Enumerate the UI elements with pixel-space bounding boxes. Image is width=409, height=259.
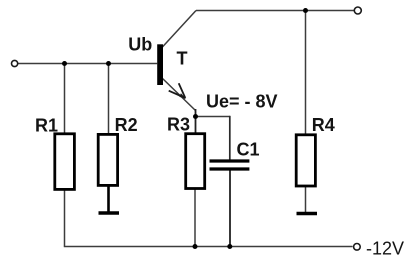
resistor R1: [55, 134, 75, 190]
svg-text:C1: C1: [237, 139, 260, 159]
wire R1 top lead: [64, 64, 66, 135]
wire R2 ground stub: [107, 185, 110, 212]
wire R4 ground stub: [305, 186, 307, 213]
wire node to capacitor C1 top: [196, 116, 230, 118]
wire top rail: [196, 10, 354, 12]
node junction dot bottom rail/R3: [193, 244, 198, 249]
resistor R2: [98, 134, 117, 185]
wire R3 bottom lead: [194, 188, 196, 246]
wire R2 top lead: [108, 64, 110, 135]
node junction dot base/R1: [62, 61, 67, 66]
node junction dot emitter/R3/C1: [193, 114, 198, 119]
node junction dot base/R2: [106, 61, 111, 66]
wire base wire from left terminal to transistor base: [18, 63, 157, 65]
wire R4 top lead: [305, 11, 307, 136]
terminal -12V bottom right: [354, 244, 361, 251]
svg-text:R1: R1: [35, 116, 58, 136]
svg-text:R2: R2: [115, 115, 138, 135]
svg-text:T: T: [177, 48, 188, 68]
wire bottom rail to -12V terminal: [64, 246, 353, 248]
transistor Q1 emitter arrowhead: [169, 83, 186, 98]
svg-text:R3: R3: [167, 115, 190, 135]
wire C1 bottom lead: [229, 170, 231, 246]
resistor R4: [296, 135, 315, 186]
wire emitter node to R3 top: [195, 109, 197, 134]
terminal output top right: [354, 7, 361, 14]
svg-text:R4: R4: [312, 115, 335, 135]
resistor R3: [186, 134, 205, 189]
transistor Q1 base bar: [157, 44, 163, 85]
node junction dot bottom rail/C1: [227, 244, 232, 249]
capacitor C1 bottom plate: [210, 167, 250, 170]
ground under R4: [297, 212, 318, 216]
terminal input left: [12, 60, 18, 66]
svg-text:Ub: Ub: [128, 35, 152, 55]
ground under R2: [99, 211, 120, 215]
node junction dot top rail/R4: [303, 8, 308, 13]
wire collector diagonal: [162, 11, 197, 49]
wire emitter diagonal: [162, 78, 196, 111]
wire R1 bottom lead: [64, 189, 66, 246]
svg-text:-12V: -12V: [366, 239, 404, 259]
capacitor C1 top plate: [210, 159, 250, 162]
svg-text:Ue= - 8V: Ue= - 8V: [206, 92, 278, 112]
